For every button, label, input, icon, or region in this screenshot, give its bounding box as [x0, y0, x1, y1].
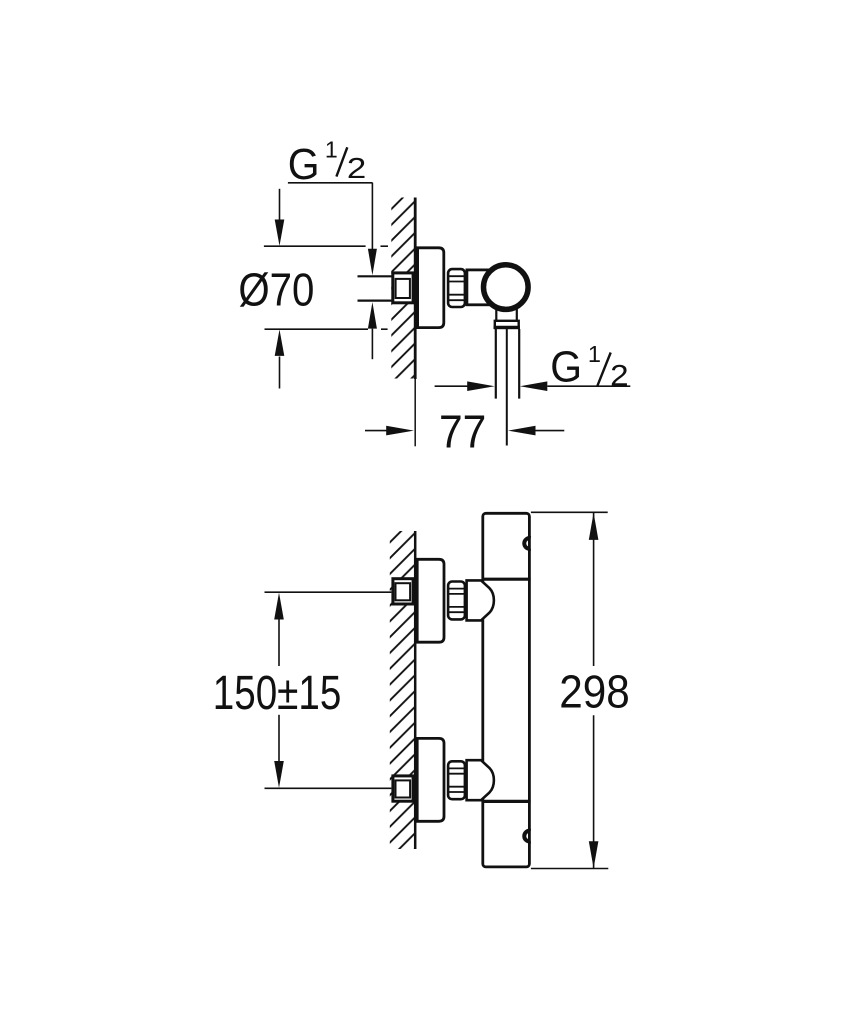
svg-text:298: 298: [559, 666, 630, 718]
svg-text:1: 1: [588, 341, 601, 367]
svg-text:150±15: 150±15: [213, 666, 341, 720]
svg-text:77: 77: [439, 406, 486, 458]
svg-text:G: G: [288, 141, 320, 189]
svg-text:2: 2: [610, 359, 629, 392]
svg-text:1: 1: [325, 137, 338, 163]
svg-text:2: 2: [347, 153, 366, 185]
svg-text:Ø70: Ø70: [238, 263, 314, 315]
svg-text:G: G: [550, 344, 582, 392]
